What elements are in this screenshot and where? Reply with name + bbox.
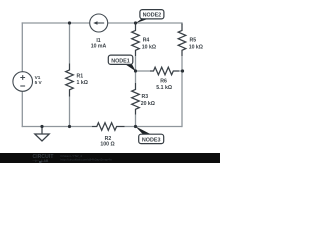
resistor R5 (178, 24, 186, 57)
svg-text:R1: R1 (77, 74, 84, 80)
resistor R3 (132, 83, 140, 115)
node NODE3 callout (135, 126, 163, 143)
svg-text:20 kΩ: 20 kΩ (141, 101, 155, 107)
wire bottom-left horizontal (corner to R2) (22, 126, 92, 128)
wire left vertical lower (V1 to bottom-left corner) (21, 91, 23, 127)
svg-text:5.1 kΩ: 5.1 kΩ (156, 85, 172, 91)
wire R1 branch lower (R1 down to bottom wire) (69, 97, 71, 127)
svg-text:R5: R5 (190, 38, 197, 44)
current source I1 (90, 14, 108, 32)
node junction dot ground (40, 125, 43, 128)
svg-text:10 mA: 10 mA (91, 44, 107, 50)
node junction dot NODE1 (134, 69, 137, 72)
label V1 value (35, 75, 43, 85)
svg-text:10 kΩ: 10 kΩ (189, 44, 203, 50)
wire top-left horizontal (V1 top to I1) (22, 22, 90, 24)
wire R1 branch upper (top junction down to R1) (69, 23, 71, 64)
node junction dot NODE3 (134, 125, 137, 128)
node junction dot top (R1 tap) (68, 21, 71, 24)
svg-text:NODE1: NODE1 (111, 58, 130, 64)
label R1 value (77, 74, 88, 87)
wire top-right horizontal (I1 to NODE2 junction to top-right corner) (108, 22, 183, 24)
resistor R4 (132, 24, 140, 57)
wire bottom-right horizontal (R2 to bottom-right corner) (125, 126, 183, 128)
ground (35, 127, 49, 142)
wire middle branch (R3 bottom to NODE3 junction) (135, 115, 137, 127)
node NODE2 callout (136, 10, 164, 24)
label R3 value (141, 94, 155, 107)
label R2 value (100, 136, 114, 147)
wire middle branch (NODE1 junction to R3 top) (135, 71, 137, 83)
resistor R2 (92, 123, 125, 131)
svg-text:R4: R4 (143, 38, 150, 44)
wire right vertical (top-right corner through R5 to bottom-right corner) (181, 22, 183, 127)
svg-text:100 Ω: 100 Ω (100, 141, 114, 147)
watermark CircuitLab logo (32, 154, 54, 164)
node NODE1 callout (108, 55, 135, 71)
label R6 value (156, 79, 172, 92)
resistor R6 (150, 67, 179, 75)
watermark text lines (61, 154, 112, 162)
svg-text:http://circuitlab.com/c84h3ayt: http://circuitlab.com/c84h3ayt3mzp4n (61, 158, 112, 162)
node junction dot NODE2 (134, 21, 137, 24)
svg-text:R3: R3 (142, 94, 149, 100)
svg-text:1 kΩ: 1 kΩ (77, 80, 88, 86)
svg-text:NODE3: NODE3 (142, 138, 161, 144)
wire R6 left segment (NODE1 junction to R6) (136, 70, 151, 72)
node junction dot R6 right (181, 69, 184, 72)
label R4 value (142, 38, 156, 51)
svg-text:5 V: 5 V (35, 80, 43, 85)
svg-text:NODE2: NODE2 (143, 13, 162, 19)
svg-text:10 kΩ: 10 kΩ (142, 44, 156, 50)
wire middle branch (R4 bottom to NODE1 junction) (135, 56, 137, 71)
node junction dot R1 bottom (68, 125, 71, 128)
watermark bar (0, 153, 220, 163)
label I1 value (91, 38, 107, 49)
label R5 value (189, 38, 203, 51)
wire R6 right segment (R6 to right branch junction) (179, 70, 183, 72)
wire left vertical upper (top corner down to V1) (21, 22, 23, 71)
svg-text:R6: R6 (160, 79, 167, 85)
voltage source V1 (13, 72, 33, 92)
resistor R1 (66, 64, 74, 97)
